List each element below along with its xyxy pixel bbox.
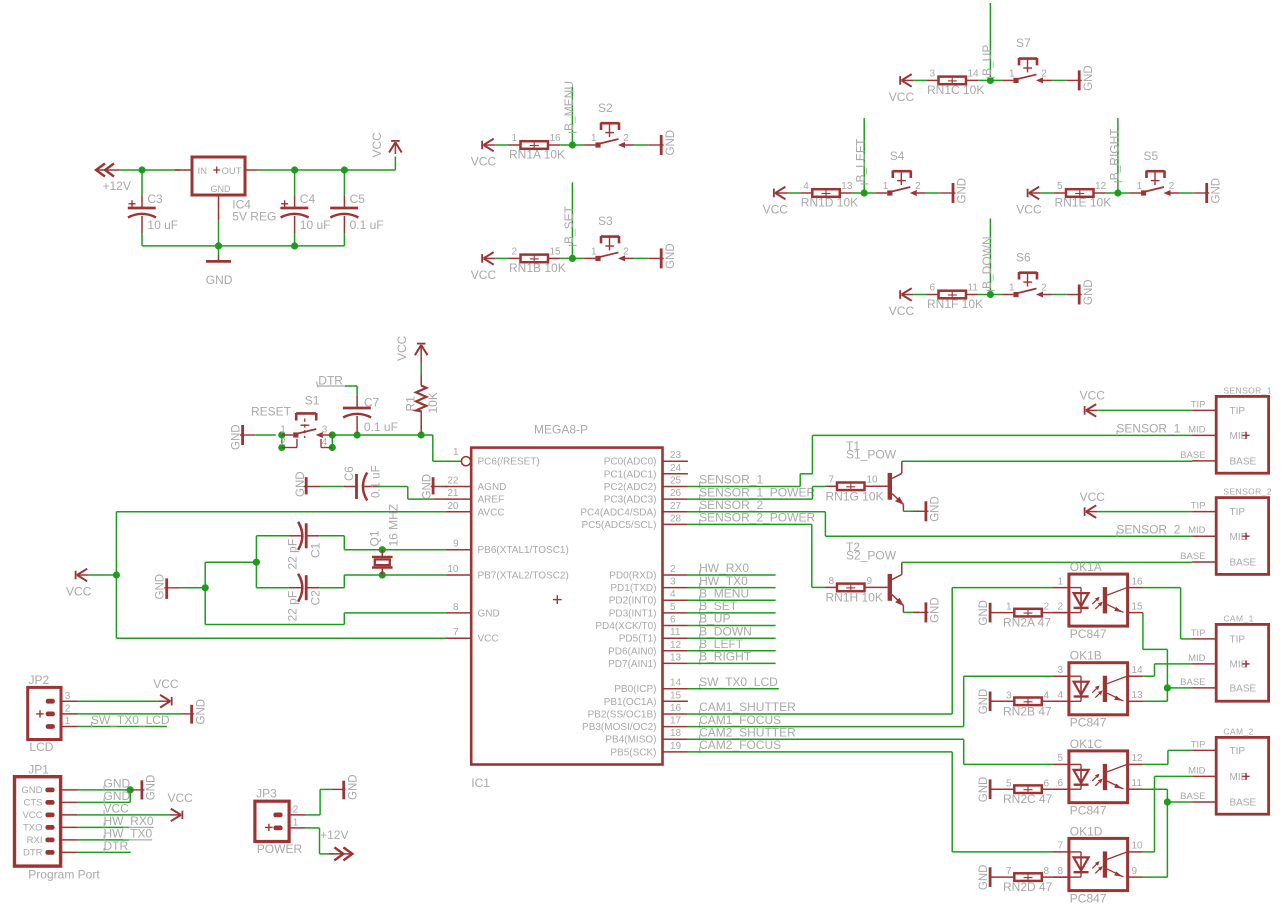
wire VCC to RN1D (787, 192, 800, 194)
svg-text:5: 5 (1057, 753, 1063, 764)
svg-text:PC847: PC847 (1070, 627, 1107, 641)
net label SW_TX0_LCD (699, 675, 778, 690)
svg-text:1: 1 (293, 817, 299, 828)
ground (power section) (206, 246, 233, 287)
svg-text:TIP: TIP (1191, 399, 1206, 410)
svg-text:VCC: VCC (395, 335, 409, 361)
capacitor C4 (280, 170, 330, 246)
wire (688, 637, 776, 639)
supply VCC (SENSOR_1 TIP) (1080, 389, 1193, 417)
wire VCC to RN1B (495, 257, 508, 259)
optocoupler OK1B PC847 (1053, 649, 1144, 730)
svg-text:14: 14 (670, 678, 682, 689)
wire JP1 GND net (78, 789, 131, 791)
svg-text:GND: GND (478, 608, 500, 619)
ground (T2) (913, 597, 942, 623)
capacitor C5 (330, 170, 383, 246)
wire JP2 pin2 to ground (78, 713, 180, 715)
wire net B_SET (571, 182, 573, 258)
net label HW_TX0 (JP1) (104, 826, 153, 841)
node B_MENU junction (569, 141, 576, 148)
svg-text:PD7(AIN1): PD7(AIN1) (608, 659, 656, 670)
svg-text:TIP: TIP (1230, 507, 1246, 518)
svg-text:6: 6 (1057, 778, 1063, 789)
svg-text:PC2(ADC2): PC2(ADC2) (604, 482, 657, 493)
wire S3 to ground (634, 257, 648, 259)
svg-text:15: 15 (550, 247, 562, 258)
net label B_SET (699, 599, 738, 614)
svg-text:22: 22 (447, 476, 459, 487)
svg-text:8: 8 (1044, 866, 1050, 877)
svg-text:+12V: +12V (103, 179, 131, 193)
supply VCC (S7 branch pull-up) (889, 74, 915, 104)
wire OK1D pin10 to CAM_2 MID (1143, 776, 1192, 852)
net label SENSOR_2 (connector) (1116, 522, 1180, 537)
svg-text:MID: MID (1230, 532, 1248, 543)
pin 15 PB1(OC1A) (604, 690, 688, 708)
svg-text:14: 14 (968, 69, 980, 80)
supply VCC (JP1) (168, 791, 194, 821)
svg-text:RN1G 10K: RN1G 10K (826, 489, 884, 503)
svg-text:GND: GND (930, 496, 942, 522)
svg-text:OK1B: OK1B (1070, 649, 1102, 663)
svg-text:2: 2 (623, 247, 629, 258)
svg-text:16 MHZ: 16 MHZ (387, 504, 401, 547)
svg-text:CAM2_FOCUS: CAM2_FOCUS (699, 738, 781, 752)
svg-text:S7: S7 (1016, 36, 1031, 50)
svg-text:VCC: VCC (889, 304, 915, 318)
svg-text:12: 12 (1132, 753, 1144, 764)
net label CAM2_FOCUS (699, 738, 781, 753)
wire VCC to RN1F (913, 294, 926, 296)
svg-text:GND: GND (155, 574, 167, 600)
svg-text:JP3: JP3 (256, 787, 277, 801)
svg-text:20: 20 (447, 501, 459, 512)
svg-text:GND: GND (146, 775, 158, 801)
svg-text:3: 3 (1057, 665, 1063, 676)
svg-text:PB0(ICP): PB0(ICP) (614, 684, 656, 695)
svg-text:B_DOWN: B_DOWN (980, 236, 994, 289)
resistor RN2C 47 (978, 777, 1069, 807)
svg-text:4: 4 (803, 181, 809, 192)
wire ground net (180, 536, 446, 625)
wire IC4 input lead (175, 169, 192, 171)
svg-text:JP1: JP1 (28, 763, 49, 777)
svg-text:PB5(SCK): PB5(SCK) (610, 747, 656, 758)
svg-text:S3: S3 (598, 214, 613, 228)
svg-text:B_RIGHT: B_RIGHT (1107, 128, 1121, 181)
wire crystal to MCU (382, 550, 446, 575)
svg-text:GND: GND (196, 699, 208, 725)
node ground junction (202, 584, 209, 591)
svg-text:MID: MID (1230, 660, 1248, 671)
svg-text:RESET: RESET (251, 404, 292, 418)
svg-text:3: 3 (322, 424, 328, 435)
wire OK1B pin13 to CAM_1 BASE (1143, 688, 1168, 701)
supply VCC (S4 branch pull-up) (763, 187, 789, 217)
wire reset ground to S1 (255, 434, 276, 436)
svg-text:VCC: VCC (153, 677, 179, 691)
svg-text:S6: S6 (1016, 250, 1031, 264)
pushbutton S3 (584, 214, 634, 261)
svg-text:VCC: VCC (1080, 490, 1106, 504)
net label B_MENU (562, 81, 577, 132)
svg-text:2: 2 (511, 247, 517, 258)
transistor T1 S1_POW (846, 439, 904, 512)
svg-text:24: 24 (670, 463, 682, 474)
svg-text:RN1H 10K: RN1H 10K (826, 590, 883, 604)
svg-text:GND: GND (665, 243, 677, 269)
svg-text:1: 1 (280, 424, 286, 435)
svg-text:PC847: PC847 (1070, 803, 1107, 817)
wire S5 to ground (1180, 192, 1194, 194)
capacitor C3 (128, 170, 178, 246)
svg-text:GND: GND (957, 178, 969, 204)
pin 23 PC0(ADC0) (604, 450, 688, 468)
svg-text:TIP: TIP (1191, 501, 1206, 512)
pin 19 PB5(SCK) (610, 741, 688, 759)
pin 5 PD3(INT1) (609, 602, 688, 620)
pushbutton S7 (1002, 36, 1052, 83)
net label SENSOR_2_POWER (699, 511, 815, 526)
svg-text:0.1 uF: 0.1 uF (364, 420, 398, 434)
node XTAL2 junction (379, 571, 386, 578)
svg-text:2: 2 (280, 437, 286, 448)
net label GND (JP1 pin2) (104, 789, 131, 804)
node C7 junction (354, 431, 361, 438)
svg-text:2: 2 (1057, 601, 1063, 612)
svg-text:2: 2 (1041, 283, 1047, 294)
wire T2 emitter to ground (903, 611, 919, 613)
microcontroller IC1 MEGA8-P (471, 423, 662, 791)
svg-text:DTR: DTR (23, 848, 43, 859)
wire JP3 pin2 to ground (306, 789, 332, 815)
wire DTR to C7 (345, 386, 357, 396)
wire ground rail (142, 245, 344, 247)
svg-text:TXO: TXO (23, 823, 43, 834)
svg-text:BASE: BASE (1230, 457, 1257, 468)
svg-text:VCC: VCC (889, 90, 915, 104)
wire JP1 RXI net (78, 839, 153, 841)
wire (688, 587, 776, 589)
pin 3 PD1(TXD) (610, 577, 688, 595)
wire T2 collector to SENSOR_2 BASE (902, 561, 1192, 563)
supply VCC (R1) (395, 335, 428, 361)
pin 21 AREF (446, 488, 504, 506)
svg-text:PD6(AIN0): PD6(AIN0) (608, 646, 656, 657)
pin 14 PB0(ICP) (614, 678, 688, 696)
svg-text:1: 1 (1006, 602, 1012, 613)
svg-text:PC6(/RESET): PC6(/RESET) (478, 457, 540, 468)
svg-text:CAM_1: CAM_1 (1223, 613, 1253, 623)
wire SENSOR_1_POWER net (688, 487, 826, 500)
svg-text:GND: GND (930, 597, 942, 623)
svg-text:7: 7 (828, 475, 834, 486)
wire (688, 599, 776, 601)
wire CAM1_SHUTTER net (688, 588, 1053, 714)
connector SENSOR_2 (1180, 487, 1272, 575)
svg-text:C5: C5 (350, 192, 366, 206)
net label HW_TX0 (699, 574, 748, 589)
svg-text:4: 4 (322, 437, 328, 448)
net label SW_TX0_LCD (JP2) (91, 713, 170, 728)
svg-text:AGND: AGND (478, 482, 507, 493)
svg-text:GND: GND (206, 273, 233, 287)
svg-text:10 uF: 10 uF (147, 218, 178, 232)
node VCC junction (113, 571, 120, 578)
svg-text:PC4(ADC4/SDA): PC4(ADC4/SDA) (580, 507, 656, 518)
svg-text:18: 18 (670, 728, 682, 739)
pin 28 PC5(ADC5/SCL) (581, 513, 687, 531)
svg-text:DTR: DTR (318, 373, 343, 387)
svg-text:PC847: PC847 (1070, 716, 1107, 730)
svg-text:12: 12 (1095, 181, 1107, 192)
pushbutton S5 (1130, 149, 1180, 196)
node B_LEFT junction (861, 189, 868, 196)
node R1 junction (418, 431, 425, 438)
svg-text:25: 25 (670, 476, 682, 487)
net label CAM1_FOCUS (699, 713, 781, 728)
svg-text:SENSOR_2: SENSOR_2 (1116, 522, 1180, 536)
svg-text:VCC: VCC (1016, 203, 1042, 217)
resistor RN1A 10K (509, 133, 566, 161)
svg-text:C2: C2 (309, 590, 323, 606)
svg-text:B_SET: B_SET (562, 205, 576, 244)
svg-text:1: 1 (1057, 576, 1063, 587)
svg-text:13: 13 (670, 652, 682, 663)
svg-text:MID: MID (1230, 431, 1248, 442)
wire CAM2_FOCUS net (688, 752, 1053, 852)
svg-text:14: 14 (1132, 665, 1144, 676)
pin 18 PB4(MISO) (605, 728, 688, 746)
wire JP1 CTS net (78, 790, 131, 803)
svg-text:PB6(XTAL1/TOSC1): PB6(XTAL1/TOSC1) (478, 545, 569, 556)
wire OK1A pin15 to CAM_1 BASE (1143, 613, 1192, 688)
svg-text:PC5(ADC5/SCL): PC5(ADC5/SCL) (581, 520, 656, 531)
supply VCC (S3 branch pull-up) (471, 252, 497, 282)
ground (S5 branch) (1194, 178, 1223, 204)
svg-text:1: 1 (1009, 69, 1015, 80)
supply VCC (JP2) (153, 677, 179, 708)
svg-text:PB1(OC1A): PB1(OC1A) (604, 697, 657, 708)
svg-text:RN2C 47: RN2C 47 (1003, 792, 1053, 806)
wire net B_LEFT (863, 118, 865, 193)
svg-text:TIP: TIP (1191, 739, 1206, 750)
pin 24 PC1(ADC1) (604, 463, 688, 481)
svg-text:1: 1 (1009, 283, 1015, 294)
svg-text:2: 2 (1044, 602, 1050, 613)
svg-text:6: 6 (1044, 778, 1050, 789)
net label SENSOR_1 (699, 473, 763, 488)
svg-text:C7: C7 (364, 396, 380, 410)
wire (688, 625, 776, 627)
svg-text:RN1D 10K: RN1D 10K (801, 195, 858, 209)
svg-text:RN1A 10K: RN1A 10K (509, 147, 565, 161)
net label B_RIGHT (1107, 128, 1122, 182)
svg-text:VCC: VCC (1080, 389, 1106, 403)
svg-text:GND: GND (230, 424, 242, 450)
svg-text:OK1A: OK1A (1070, 560, 1102, 574)
svg-text:13: 13 (1132, 690, 1144, 701)
svg-text:BASE: BASE (1230, 684, 1257, 695)
ground (S4 branch) (940, 178, 969, 204)
svg-text:MID: MID (1188, 424, 1206, 435)
ground (JP3) (332, 774, 360, 800)
svg-text:AVCC: AVCC (478, 507, 505, 518)
svg-text:8: 8 (453, 602, 459, 613)
svg-text:SENSOR_1: SENSOR_1 (1223, 385, 1272, 395)
svg-text:0.1 uF: 0.1 uF (350, 218, 384, 232)
ground (JP1) (130, 775, 157, 801)
svg-text:RN1F 10K: RN1F 10K (927, 297, 983, 311)
resistor RN1E 10K (1054, 181, 1111, 209)
net label VCC (JP1) (104, 801, 130, 816)
svg-text:10: 10 (447, 564, 459, 575)
node XTAL1 junction (379, 546, 386, 553)
svg-text:11: 11 (670, 627, 681, 638)
net label HW_RX0 (699, 561, 749, 576)
supply VCC (MCU) (66, 569, 92, 599)
wire OK1A pin16 to CAM_1 TIP (1143, 588, 1192, 639)
svg-text:16: 16 (1132, 576, 1144, 587)
svg-text:VCC: VCC (478, 634, 499, 645)
node C4 top junction (291, 166, 298, 173)
svg-text:PC847: PC847 (1070, 891, 1107, 905)
pin 11 PD5(T1) (619, 627, 688, 645)
svg-text:SENSOR_2: SENSOR_2 (1223, 487, 1272, 497)
svg-text:PB7(XTAL2/TOSC2): PB7(XTAL2/TOSC2) (478, 571, 569, 582)
svg-text:GND: GND (978, 600, 990, 626)
svg-text:Program Port: Program Port (28, 868, 100, 882)
net label SENSOR_2 (699, 498, 763, 513)
svg-text:1: 1 (591, 133, 597, 144)
svg-text:VCC: VCC (168, 791, 194, 805)
svg-text:10 uF: 10 uF (300, 218, 331, 232)
net label B_LEFT (854, 138, 869, 184)
wire IC4 GND pin (218, 195, 220, 246)
svg-text:B_RIGHT: B_RIGHT (699, 650, 752, 664)
node B_RIGHT junction (1114, 189, 1121, 196)
svg-text:VCC: VCC (471, 155, 497, 169)
svg-text:11: 11 (968, 283, 979, 294)
pin 22 AGND (446, 476, 507, 494)
pin 25 PC2(ADC2) (604, 476, 688, 494)
node JP1 ground junction (127, 786, 134, 793)
svg-text:2: 2 (1169, 181, 1175, 192)
svg-text:VCC: VCC (22, 810, 42, 821)
svg-text:MID: MID (1188, 653, 1206, 664)
svg-text:VCC: VCC (66, 584, 92, 598)
wire OK1C pin11 to CAM_2 BASE (1143, 789, 1168, 802)
net label B_DOWN (699, 624, 752, 639)
pin 9 PB6(XTAL1/TOSC1) (446, 539, 569, 557)
svg-text:1: 1 (511, 133, 517, 144)
+12V supply symbol (96, 164, 131, 193)
svg-text:C1: C1 (309, 542, 323, 558)
svg-text:PD1(TXD): PD1(TXD) (610, 583, 656, 594)
node CAM_2 BASE junction (1164, 798, 1171, 805)
svg-text:PD3(INT1): PD3(INT1) (609, 608, 657, 619)
svg-text:OUT: OUT (222, 166, 242, 177)
svg-text:26: 26 (670, 488, 682, 499)
svg-text:1: 1 (1136, 181, 1142, 192)
svg-text:+12V: +12V (320, 828, 348, 842)
svg-text:POWER: POWER (257, 842, 303, 856)
svg-text:MID: MID (1188, 765, 1206, 776)
svg-text:7: 7 (1057, 841, 1063, 852)
svg-text:IN: IN (198, 166, 208, 177)
optocoupler OK1D PC847 (1053, 824, 1144, 905)
wire RN1F to switch S6 (978, 294, 1002, 296)
svg-text:RN2D 47: RN2D 47 (1003, 880, 1053, 894)
svg-text:15: 15 (1132, 601, 1144, 612)
svg-text:4: 4 (1044, 690, 1050, 701)
svg-text:15: 15 (670, 690, 682, 701)
wire VCC to RN1A (495, 144, 508, 146)
svg-text:23: 23 (670, 450, 682, 461)
net label B_DOWN (980, 236, 995, 290)
pin 17 PB3(MOSI/OC2) (582, 716, 688, 734)
svg-text:PB2(SS/OC1B): PB2(SS/OC1B) (588, 710, 657, 721)
net label SENSOR_1 (connector) (1116, 422, 1180, 437)
svg-text:7: 7 (453, 627, 459, 638)
svg-text:C3: C3 (147, 192, 163, 206)
net label B_LEFT (699, 637, 744, 652)
svg-text:3: 3 (929, 69, 935, 80)
svg-text:9: 9 (453, 539, 459, 550)
net label SENSOR_1_POWER (699, 485, 815, 500)
svg-text:16: 16 (550, 133, 562, 144)
wire VCC loop (89, 512, 446, 638)
svg-text:9: 9 (867, 576, 873, 587)
wire S4 to ground (926, 192, 940, 194)
wire (688, 662, 776, 664)
pushbutton S6 (1002, 250, 1052, 297)
resistor RN1G 10K (826, 475, 888, 504)
wire C6 to AREF (378, 487, 434, 500)
transistor T2 S2_POW (846, 540, 904, 613)
svg-text:RN2A 47: RN2A 47 (1003, 616, 1051, 630)
svg-text:C6: C6 (344, 466, 356, 481)
svg-text:MID: MID (1188, 525, 1206, 536)
svg-text:6: 6 (670, 615, 676, 626)
pin 2 PD0(RXD) (609, 564, 688, 582)
net label B_MENU (699, 586, 749, 601)
ground (reset) (230, 424, 255, 450)
capacitor C1 (256, 522, 382, 570)
optocoupler OK1C PC847 (1053, 737, 1144, 818)
svg-text:3: 3 (65, 691, 71, 702)
wire S6 to ground (1052, 294, 1066, 296)
capacitor C2 (256, 574, 382, 622)
svg-text:MID: MID (1230, 772, 1248, 783)
net label B_RIGHT (699, 650, 752, 665)
net label CAM1_SHUTTER (699, 700, 796, 715)
svg-text:6: 6 (929, 283, 935, 294)
svg-text:GND: GND (1210, 178, 1222, 204)
svg-text:TIP: TIP (1230, 635, 1246, 646)
connector JP2 LCD (28, 673, 78, 754)
ground (S6 branch) (1066, 279, 1095, 305)
svg-text:PC0(ADC0): PC0(ADC0) (604, 457, 657, 468)
svg-text:GND: GND (978, 865, 990, 891)
pin 27 PC4(ADC4/SDA) (580, 501, 688, 519)
supply VCC (SENSOR_2 TIP) (1080, 490, 1193, 518)
svg-text:22 pF: 22 pF (285, 591, 299, 622)
svg-text:5V REG: 5V REG (232, 209, 276, 223)
svg-text:PC1(ADC1): PC1(ADC1) (604, 469, 657, 480)
wire net B_DOWN (989, 219, 991, 295)
